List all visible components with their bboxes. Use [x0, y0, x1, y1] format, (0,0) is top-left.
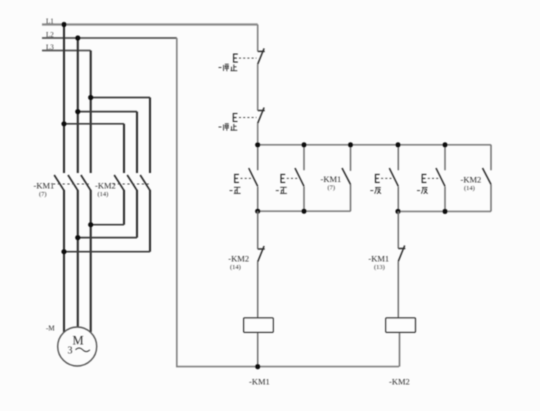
svg-text:(7): (7)	[39, 191, 47, 198]
svg-text:3: 3	[68, 346, 73, 357]
svg-text:(14): (14)	[98, 191, 109, 198]
svg-text:(14): (14)	[230, 264, 241, 271]
svg-text:-KM2: -KM2	[389, 377, 410, 387]
svg-text:-KM2: -KM2	[95, 181, 116, 191]
svg-text:L3: L3	[46, 44, 54, 52]
svg-text:-KM1: -KM1	[34, 181, 55, 191]
svg-text:L1: L1	[46, 18, 54, 26]
svg-text:-KM1: -KM1	[249, 377, 270, 387]
svg-text:-KM1: -KM1	[321, 174, 342, 184]
svg-text:M: M	[73, 334, 84, 348]
svg-text:-M: -M	[46, 325, 55, 333]
svg-text:-KM2: -KM2	[228, 254, 249, 264]
svg-text:(7): (7)	[328, 185, 336, 192]
svg-text:-KM1: -KM1	[368, 254, 389, 264]
svg-text:(13): (13)	[374, 264, 385, 271]
svg-text:L2: L2	[46, 31, 54, 39]
svg-text:(14): (14)	[464, 185, 475, 192]
svg-text:-KM2: -KM2	[461, 175, 482, 185]
